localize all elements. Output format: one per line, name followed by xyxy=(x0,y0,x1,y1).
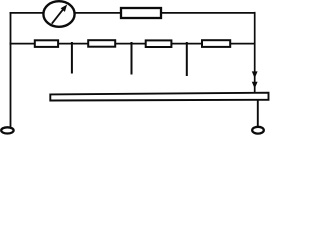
resistor R5 (top box) xyxy=(121,8,161,18)
wire: top horizontal, resistor R5 to right bus xyxy=(161,12,256,14)
wire: left vertical bus xyxy=(10,12,12,127)
resistor R2 xyxy=(88,40,115,47)
wire: top horizontal, meter to resistor R5 xyxy=(74,12,122,14)
slide-wire bar R6 xyxy=(50,93,268,101)
terminal T1 (bottom-left) xyxy=(1,127,13,133)
meter M1 (galvanometer circle) xyxy=(43,1,74,27)
resistor R1 xyxy=(35,40,58,47)
slider arrowhead lower (pointing down) xyxy=(252,82,258,89)
slider arrowhead upper (pointing down) xyxy=(252,71,258,78)
wire: R2 to R3 xyxy=(115,43,146,45)
wire: second row horizontal, left bus to R1 xyxy=(10,43,36,45)
meter M1 needle with arrowhead xyxy=(52,5,67,24)
wire: R4 to right bus xyxy=(230,43,255,45)
wire: right vertical bus (slider stem) xyxy=(254,12,256,94)
wire: top horizontal, left bus to meter xyxy=(10,12,45,14)
wire: bar to right terminal xyxy=(257,100,259,127)
node tap stub 3 xyxy=(186,42,188,76)
terminal T2 (bottom-right) xyxy=(252,127,264,134)
resistor R3 xyxy=(146,40,172,47)
wire: R3 to R4 xyxy=(171,43,202,45)
resistor R4 xyxy=(202,40,230,47)
node tap stub 2 xyxy=(131,42,133,75)
wire: R1 to R2 xyxy=(58,43,89,45)
node tap stub 1 xyxy=(71,42,73,74)
